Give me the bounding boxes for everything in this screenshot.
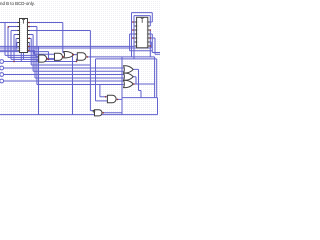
wire IC2 inner hook: [134, 16, 150, 59]
IC2: [135, 17, 150, 48]
wire gate H top input: [100, 85, 108, 97]
gate G OR: [124, 80, 134, 87]
wire IC1 bottom stub a: [20, 53, 22, 62]
wire second right line: [96, 59, 157, 101]
wire J3 line to gate F: [4, 74, 124, 76]
wire J1 line: [4, 61, 77, 63]
wire E bottom input: [33, 70, 124, 72]
wire J1 tap to G1 bottom input: [37, 60, 39, 61]
wire F bottom input: [35, 46, 124, 78]
gate E OR: [124, 66, 134, 73]
gate I bubble: [93, 110, 95, 112]
wire IC2 right pin3 down: [149, 30, 152, 57]
wire G bottom input: [37, 84, 124, 86]
connector J3: [0, 73, 4, 77]
junction dots: [28, 22, 30, 24]
wire I out: [103, 112, 122, 114]
gate I AND: [95, 110, 103, 116]
wire F out: [133, 77, 136, 84]
wire J4 line to gate G: [4, 80, 124, 82]
wire IC1 left pin5: [16, 39, 18, 52]
wire IC1 left pin1 horizontal: [0, 22, 18, 24]
wire IC2 left pin4 under-route: [130, 34, 153, 51]
wire gate I top input stub: [90, 110, 93, 112]
wire IC2 right pin4 exit: [150, 34, 160, 53]
wire IC2 outer hook: [132, 13, 153, 57]
connector J1: [0, 60, 4, 64]
bus line 4: [0, 52, 49, 60]
wire bottom feedback: [0, 114, 158, 116]
svg-text:nd B to BCD-only.: nd B to BCD-only.: [0, 1, 35, 6]
wire E out: [133, 69, 141, 97]
gate G1 AND: [39, 55, 47, 62]
wire H out: [117, 98, 122, 100]
gate G2 AND: [55, 53, 63, 60]
connector J2: [0, 66, 4, 70]
wire IC2 right pin5 exit: [150, 38, 160, 54]
wire IC1 right pin3: [30, 31, 91, 111]
wire G1 to G2: [47, 58, 55, 60]
wire J2 line to gate E: [4, 67, 124, 69]
gate G4 AND: [77, 53, 86, 60]
gate H AND: [107, 95, 116, 102]
wire G out: [133, 83, 154, 85]
wire long vertical from bus1: [38, 46, 40, 114]
wire IC1 right pin1 long: [30, 23, 65, 53]
bus line 3: [0, 50, 55, 54]
wire IC2 right pin7 stub: [149, 45, 152, 47]
wire right edge vertical from second line: [156, 59, 158, 98]
wire IC1 left pin3: [11, 31, 55, 60]
IC1: [18, 19, 30, 53]
wire IC1 bottom stub b: [23, 53, 25, 60]
wire G2 to G3: [63, 56, 64, 58]
wire pin1L riser to mid line: [5, 23, 39, 57]
wire long vertical x122: [121, 57, 123, 115]
wire IC1 right pin4: [30, 35, 34, 72]
wire IC1 right pin2: [30, 27, 37, 85]
bus line 1: [0, 45, 135, 47]
wire G4 out line: [87, 57, 155, 98]
wire IC1 left pin6: [16, 43, 19, 49]
wire IC2 right pin6 down: [150, 42, 152, 48]
bus line 2: [0, 47, 151, 49]
connector J4: [0, 79, 4, 83]
gate G3 OR: [64, 52, 74, 58]
wire IC1 right pin5: [30, 39, 91, 66]
wire loop top: [122, 98, 158, 115]
wire G4 bottom input: [77, 59, 78, 62]
wire IC1 left pin4: [14, 35, 18, 62]
wire IC1 left pin2: [8, 27, 39, 58]
wire G3 out down: [73, 55, 78, 115]
wire IC1 right pin6: [28, 43, 30, 51]
gate F OR: [124, 73, 134, 80]
